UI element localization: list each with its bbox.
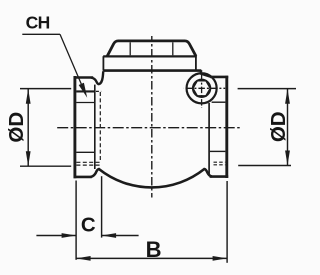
svg-text:CH: CH <box>26 13 50 33</box>
right OD arrow up <box>285 89 290 104</box>
left facet line lower <box>76 151 95 153</box>
right hub bottom edge <box>210 175 229 178</box>
left neck curve <box>91 71 103 84</box>
bonnet flange top <box>103 55 197 57</box>
step diagonal to body top edge <box>200 74 211 77</box>
C arrow left-pointing <box>102 233 117 238</box>
boss crosshair vertical <box>201 70 203 108</box>
right OD dimension line <box>287 89 289 166</box>
left chamfer hidden continuation <box>96 90 101 92</box>
boss crosshair horizontal <box>184 87 225 89</box>
extension line right face <box>226 181 228 263</box>
B dimension line <box>76 257 227 259</box>
left thread hidden line lower <box>76 164 100 166</box>
C dimension line right <box>102 235 139 237</box>
vertical centerline <box>151 36 153 198</box>
left facet line upper <box>76 102 95 104</box>
left thread hidden line upper <box>76 161 100 163</box>
svg-text:ØD: ØD <box>5 112 28 143</box>
cap facet line left <box>129 42 131 55</box>
body top edge right <box>210 76 228 79</box>
left OD extension line top <box>20 88 71 90</box>
right hub face <box>225 76 228 178</box>
hinge boss outer circle <box>187 73 217 103</box>
right boss bottom line <box>212 101 226 103</box>
svg-text:ØD: ØD <box>267 111 290 142</box>
extension line left face <box>75 181 77 260</box>
bonnet flange bottom <box>103 69 201 72</box>
left OD arrow down <box>26 151 31 166</box>
hinge boss inner circle <box>193 80 211 98</box>
hinge pin hex <box>193 81 211 96</box>
cap facet line right <box>172 42 174 55</box>
left hub bottom edge <box>74 176 92 179</box>
left OD arrow up <box>26 89 31 104</box>
step to hinge boss <box>200 71 202 75</box>
left hub face <box>73 76 76 178</box>
right thread hidden line upper <box>214 161 226 163</box>
left chamfer line <box>76 90 95 92</box>
dimension CH leader underline <box>22 33 60 35</box>
dimension CH leader line <box>60 34 86 94</box>
horizontal centerline <box>57 127 241 129</box>
left hub top edge <box>74 76 94 79</box>
left OD dimension line <box>27 89 29 167</box>
left thread depth hidden vertical <box>99 92 101 162</box>
C dimension line left <box>36 235 76 237</box>
left OD extension line bottom <box>20 165 71 167</box>
CH leader arrowhead <box>79 83 88 98</box>
right hub inner edge <box>208 103 210 176</box>
right thread hidden line lower <box>214 164 226 166</box>
bonnet flange right side <box>195 56 197 70</box>
right OD extension line top <box>238 88 296 90</box>
bonnet flange left side <box>102 56 104 70</box>
body bottom arc with necks <box>91 169 212 187</box>
right facet line <box>210 150 226 152</box>
C arrow right-pointing <box>62 233 77 238</box>
right OD extension line bottom <box>238 165 291 167</box>
svg-text:B: B <box>146 237 162 262</box>
B arrow right-pointing <box>213 256 228 261</box>
right OD arrow down <box>285 151 290 166</box>
bonnet cap hex nut <box>107 41 196 56</box>
left hub inner edge <box>94 85 96 169</box>
B arrow left-pointing <box>76 256 91 261</box>
extension line C inner <box>101 176 103 237</box>
svg-text:C: C <box>81 214 96 237</box>
